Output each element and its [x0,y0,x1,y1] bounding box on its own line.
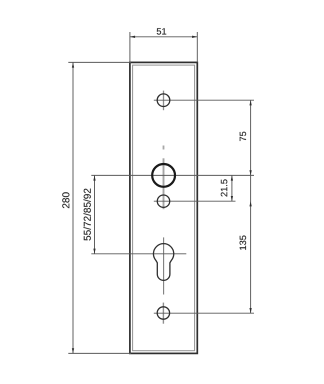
centerline vertical bottom hole [162,303,164,324]
plate outer outline [130,62,197,353]
dimension line 280 [72,62,74,353]
euro profile cylinder keyhole [153,244,173,281]
extension line 51 left [129,32,131,62]
centerline horizontal keyhole extension to left dim [91,253,186,255]
dimension line 51 [130,36,197,38]
cylinder spindle hole [152,164,175,187]
centerline vertical cylinder and middle hole [163,158,165,209]
dimension text 55/72/85/92 [84,189,91,241]
dimension text 51 [157,28,166,34]
centerline vertical keyhole [163,237,165,294]
extension line 280 bottom [68,352,131,354]
centerline horizontal middle hole extension to 21.5 dim [154,200,236,202]
centerline vertical top hole [163,91,165,111]
dimension line 75 and 135 shared [249,100,251,313]
extension line 51 right [196,32,198,62]
centerline vertical short dash [163,146,165,150]
extension line 280 top [68,61,131,63]
centerline horizontal bottom hole and extension to 135 dim [154,312,254,314]
centerline horizontal cylinder hole extension both sides [91,174,254,176]
dimension text 75 [240,132,246,141]
dimension line 21.5 [231,175,233,201]
dimension text 21.5 [221,179,228,196]
centerline horizontal top hole and extension to 75 dim [154,99,254,101]
plate inner face line [133,65,195,351]
dimension line 55/72/85/92 [93,175,95,253]
dimension text 280 [62,192,69,208]
top fixing hole [157,94,170,107]
dimension text 135 [240,236,247,250]
bottom fixing hole [157,307,169,319]
middle fixing hole [157,195,169,207]
